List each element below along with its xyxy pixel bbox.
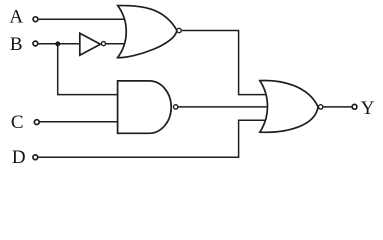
wire NOR U1 output to NOR U3 top input: [182, 31, 268, 95]
input terminal A: [33, 17, 38, 22]
input terminal B: [33, 41, 38, 46]
wire input D to NOR U3 bottom input: [38, 120, 266, 157]
svg-text:C: C: [11, 112, 24, 133]
svg-text:A: A: [9, 7, 23, 28]
2-input NOR gate U1 body: [118, 6, 177, 58]
wire inverter U4 output to NOR U1 bottom input: [106, 43, 126, 45]
3-input NOR gate U3 body: [260, 80, 318, 132]
input terminal C: [34, 120, 39, 125]
NOR gate U3 output bubble: [319, 105, 323, 109]
output terminal Y: [352, 104, 357, 109]
NAND gate U2 body: [118, 81, 172, 133]
input terminal D: [33, 155, 38, 160]
junction dot on node B: [55, 41, 60, 46]
svg-text:B: B: [10, 34, 23, 55]
svg-text:D: D: [12, 147, 26, 168]
wire input C to NAND U2 bottom input: [40, 121, 119, 123]
wire input B to inverter U4: [39, 43, 81, 45]
wire NAND U2 output to NOR U3 middle input: [179, 106, 273, 108]
inverter U4 (NOT gate on input B): [80, 33, 101, 55]
NOR gate U1 output bubble: [177, 28, 181, 32]
NAND gate U2 output bubble: [174, 105, 178, 109]
wire input A to NOR gate U1 top input: [39, 18, 125, 20]
inverter U4 output bubble: [101, 42, 105, 46]
svg-text:Y: Y: [361, 98, 375, 119]
wire NOR U3 output to terminal Y: [323, 106, 352, 108]
wire node B down to NAND U2 top input: [58, 44, 119, 95]
